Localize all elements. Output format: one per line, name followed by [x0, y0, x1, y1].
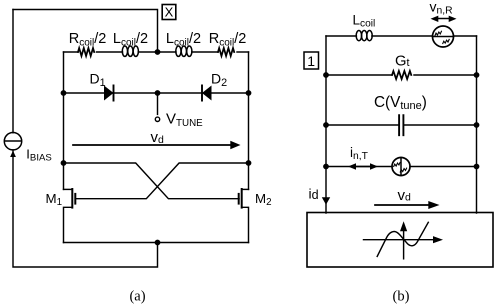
svg-text:1: 1 — [307, 53, 315, 69]
svg-text:(a): (a) — [129, 289, 145, 305]
svg-text:X: X — [165, 5, 174, 20]
svg-text:(b): (b) — [393, 289, 410, 305]
svg-text:id: id — [309, 186, 319, 202]
